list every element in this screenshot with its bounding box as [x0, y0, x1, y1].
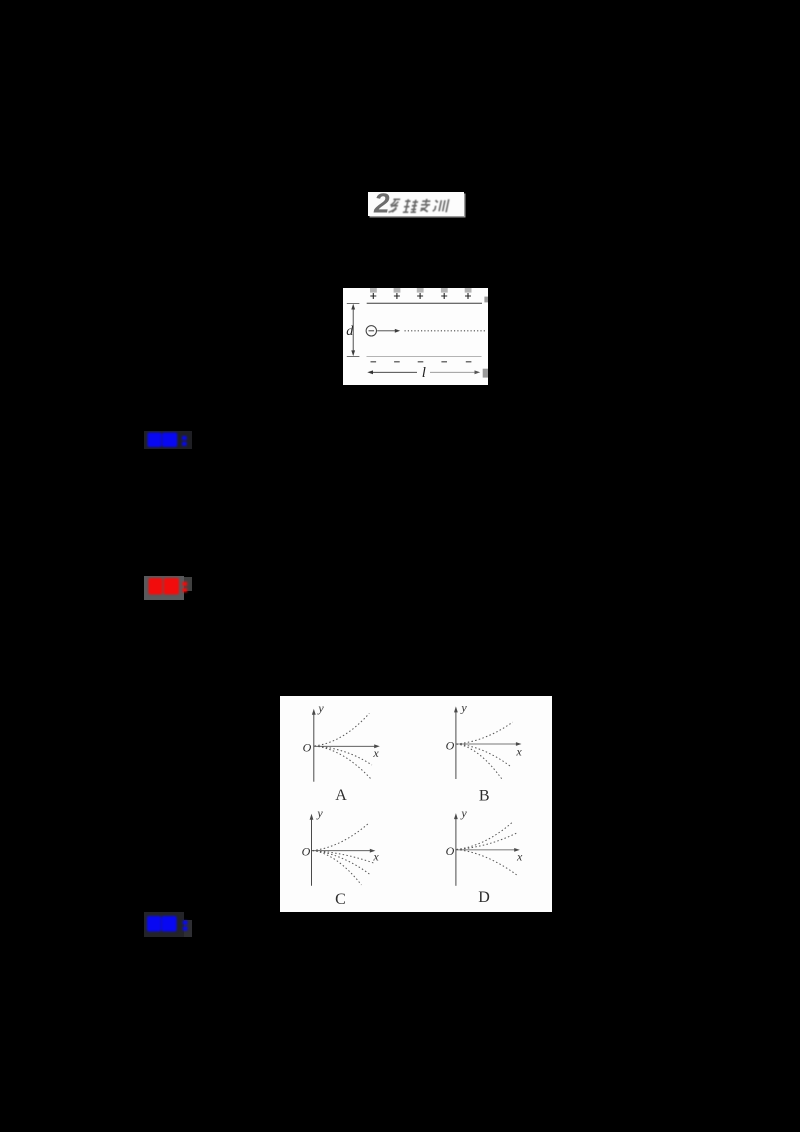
panel B curve down 2 — [457, 744, 504, 781]
char 维 — [403, 199, 419, 212]
d dimension double arrow — [352, 306, 354, 355]
panel B x-axis — [456, 743, 519, 745]
velocity arrow — [377, 330, 397, 332]
panel B y-axis — [455, 709, 457, 779]
char 多 — [388, 199, 400, 212]
answer label 1 (blue) background — [144, 431, 193, 449]
answer label 3 (blue) background extension — [184, 920, 192, 937]
svg-text:x: x — [515, 744, 522, 758]
svg-text:B: B — [479, 787, 490, 804]
panel C curve up — [313, 822, 370, 850]
panel B curve up — [457, 722, 513, 744]
svg-text:y: y — [316, 806, 323, 820]
svg-text:O: O — [446, 844, 455, 858]
panel A curve down 1 — [315, 746, 372, 765]
dotted trajectory — [405, 330, 486, 332]
panel D curve down — [457, 849, 518, 875]
panel A curve up — [315, 713, 370, 746]
analysis label 2 (red) text blob — [144, 576, 193, 600]
panel D curve up 1 — [457, 822, 512, 849]
svg-text:y: y — [460, 806, 467, 820]
panel C x-axis — [312, 849, 374, 851]
svg-text:y: y — [460, 700, 467, 714]
panel C curve down 2 — [313, 850, 372, 875]
svg-text:O: O — [303, 740, 312, 754]
svg-text:y: y — [317, 701, 324, 715]
panel D y-axis — [455, 815, 457, 885]
header numeral 2 — [366, 190, 400, 216]
svg-text:O: O — [446, 738, 455, 752]
l dimension arrow right part — [430, 371, 478, 373]
svg-text:l: l — [422, 365, 426, 381]
panel D x-axis — [456, 849, 518, 851]
svg-text:x: x — [372, 849, 379, 863]
top plate — [367, 302, 482, 304]
capacitor figure box — [343, 288, 488, 385]
panel B curve down 1 — [457, 744, 512, 767]
answer label 3 (blue) text blob — [144, 912, 193, 937]
header title strokes 多维专训 — [386, 196, 458, 216]
char 训 — [433, 199, 449, 212]
plus-row smudges — [370, 288, 472, 293]
answer label 3 (blue) background — [144, 912, 184, 937]
right edge smudge top — [484, 297, 488, 303]
analysis label 2 (red) background — [144, 576, 184, 600]
answer label 1 (blue) text blob — [144, 431, 193, 449]
gray block right of l arrow — [483, 369, 488, 378]
svg-text:O: O — [302, 844, 311, 858]
l dimension arrow left part — [370, 371, 418, 373]
panel A curve down 2 — [315, 746, 372, 779]
options figure box (A B C D graphs) — [280, 696, 552, 912]
svg-text:D: D — [478, 889, 490, 906]
panel C curve down 1 — [313, 850, 374, 863]
svg-text:A: A — [335, 787, 347, 804]
negative charge circle — [366, 326, 376, 336]
svg-text:x: x — [516, 849, 523, 863]
d dimension ticks — [347, 303, 360, 305]
svg-text:d: d — [346, 324, 354, 339]
bottom plate — [367, 355, 482, 357]
analysis label 2 (red) background extension — [184, 577, 192, 591]
panel A x-axis — [314, 745, 378, 747]
svg-text:C: C — [335, 891, 346, 908]
header badge box — [368, 192, 464, 216]
panel C curve down 3 — [313, 850, 362, 884]
plus charges — [370, 293, 471, 299]
minus charges — [371, 361, 472, 363]
panel D curve up 2 — [457, 833, 517, 849]
char 专 — [420, 199, 432, 212]
panel A y-axis — [313, 711, 315, 781]
svg-text:x: x — [372, 746, 379, 760]
panel C y-axis — [311, 816, 313, 885]
